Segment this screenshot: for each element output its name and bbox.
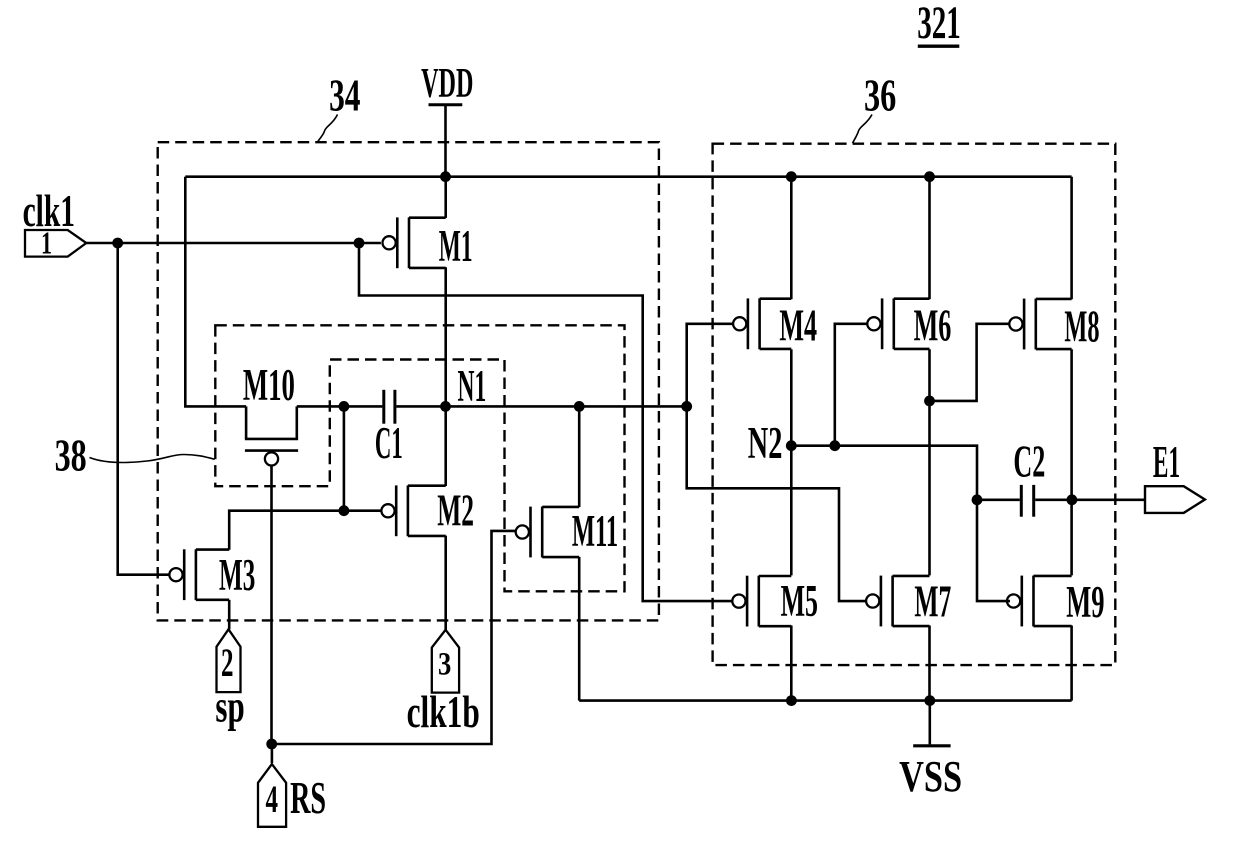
wire N1 to M7 gate bbox=[687, 406, 869, 601]
svg-text:321: 321 bbox=[917, 0, 961, 49]
transistor M7 (PMOS) bbox=[880, 576, 883, 627]
svg-text:E1: E1 bbox=[1153, 437, 1180, 487]
capacitor C2 plates bbox=[1020, 485, 1023, 517]
wire M3 source to node A bbox=[229, 511, 344, 550]
svg-text:34: 34 bbox=[329, 70, 360, 121]
wire M2 drain to pin clk1b bbox=[444, 536, 447, 630]
input pin 4 flag (RS) bbox=[258, 764, 286, 827]
svg-text:36: 36 bbox=[864, 70, 896, 121]
junction VSS-M5 bbox=[786, 695, 797, 706]
svg-text:N1: N1 bbox=[458, 361, 487, 411]
svg-text:M6: M6 bbox=[914, 301, 952, 351]
junction C2 right / M8 drain bbox=[1067, 494, 1078, 505]
wire N1 to M4 gate bbox=[687, 324, 735, 407]
svg-text:M7: M7 bbox=[914, 577, 951, 627]
wire M1 drain to N1 bbox=[444, 267, 447, 406]
wire M2 source to N1 bbox=[444, 406, 447, 486]
dashed box 36 (output buffer block) bbox=[713, 144, 1116, 665]
svg-text:M1: M1 bbox=[439, 221, 473, 271]
svg-text:M9: M9 bbox=[1066, 577, 1104, 627]
wire M8 drain to output node bbox=[1070, 349, 1073, 575]
svg-text:VDD: VDD bbox=[421, 61, 473, 107]
wire node N1 horizontal (left of C1) bbox=[297, 405, 383, 408]
wire clk1 input line bbox=[86, 242, 381, 245]
svg-text:M3: M3 bbox=[219, 550, 255, 600]
output pin E1 flag bbox=[1145, 486, 1205, 513]
wire rail left drop to M10 bbox=[185, 177, 246, 407]
junction M1/M2 on N1 bbox=[440, 401, 451, 412]
wire M11 source to N1 bbox=[578, 406, 581, 507]
dashed box 34 (input stage block) bbox=[158, 142, 659, 620]
wire VDD rail bbox=[185, 175, 1071, 178]
junction N2-M6 gate bbox=[829, 440, 840, 451]
wire M4 source to rail bbox=[790, 177, 793, 299]
svg-text:C2: C2 bbox=[1013, 437, 1045, 487]
junction N2-M4 bbox=[786, 440, 797, 451]
junction clk1-M3 branch bbox=[112, 238, 123, 249]
svg-text:2: 2 bbox=[221, 640, 234, 685]
wire node A to M2 gate bbox=[344, 509, 382, 512]
transistor M9 (PMOS) bbox=[1020, 576, 1023, 627]
transistor M10 (PMOS, horizontal, gate below) bbox=[245, 406, 248, 439]
wire M7 drain to VSS rail bbox=[928, 626, 931, 701]
transistor M6 (PMOS) bbox=[881, 298, 884, 349]
svg-text:sp: sp bbox=[215, 682, 244, 732]
svg-text:clk1: clk1 bbox=[23, 186, 75, 236]
junction M4-gate on N1 bbox=[681, 401, 692, 412]
svg-text:clk1b: clk1b bbox=[407, 687, 480, 737]
svg-text:M4: M4 bbox=[779, 301, 817, 351]
wire M9 drain to VSS rail bbox=[1070, 626, 1073, 701]
svg-text:C1: C1 bbox=[375, 418, 403, 468]
wire M6/M7 node to M8 gate bbox=[930, 324, 1011, 401]
wire VDD stem bbox=[444, 105, 447, 177]
wire C2 right lead to E1 pin bbox=[1035, 498, 1145, 501]
junction C2 left bbox=[972, 494, 983, 505]
svg-text:VSS: VSS bbox=[899, 752, 962, 801]
input pin 1 flag (clk1) bbox=[25, 230, 86, 257]
capacitor C1 plates bbox=[382, 390, 385, 424]
transistor M8 (PMOS) bbox=[1023, 299, 1026, 350]
leader line for label 38 bbox=[90, 455, 215, 463]
wire node N2 to C2 bbox=[791, 446, 977, 500]
wire RS line to M11 gate bbox=[272, 531, 516, 744]
wire M6 drain to M7 source bbox=[928, 349, 931, 575]
wire M10 gate stem down to RS line bbox=[270, 466, 273, 745]
transistor M3 (PMOS) bbox=[183, 549, 186, 600]
transistor M4 (PMOS) bbox=[747, 298, 750, 349]
svg-text:M5: M5 bbox=[781, 576, 818, 626]
wire clk1 branch to M5 gate bbox=[359, 243, 734, 601]
wire M4 drain to M5 source bbox=[790, 349, 793, 575]
wire C2 node to M9 gate bbox=[977, 500, 1010, 601]
junction VSS-M7 bbox=[924, 695, 935, 706]
wire rail corner to M8 source bbox=[1070, 177, 1073, 300]
svg-text:M8: M8 bbox=[1064, 302, 1099, 352]
wire VSS stem bbox=[928, 701, 931, 745]
leader line for label 34 bbox=[318, 115, 338, 142]
svg-text:M10: M10 bbox=[243, 360, 295, 410]
junction M11 on N1 bbox=[574, 401, 585, 412]
junction RS bbox=[266, 739, 277, 750]
wire node N1 horizontal (right of C1) bbox=[396, 405, 686, 408]
transistor M5 (PMOS) bbox=[746, 576, 749, 627]
wire RS pin stem bbox=[271, 744, 274, 763]
junction M6 drain / M8 gate bbox=[924, 396, 935, 407]
wire clk1 to M3 gate bbox=[118, 243, 170, 575]
wire M11 drain to VSS rail bbox=[578, 557, 581, 701]
dashed box 38 outline (bootstrap block, stepped polygon) bbox=[215, 325, 624, 591]
junction node A / M2 gate bbox=[339, 505, 350, 516]
wire N2 to M6 gate bbox=[835, 324, 869, 446]
VSS ground bar bbox=[913, 744, 950, 747]
svg-text:M2: M2 bbox=[437, 486, 474, 536]
transistor M11 (PMOS) bbox=[529, 507, 532, 558]
svg-text:3: 3 bbox=[438, 647, 451, 683]
input pin 2 flag (sp) bbox=[217, 629, 241, 692]
wire node A drop bbox=[343, 406, 346, 510]
junction rail-M6 bbox=[924, 171, 935, 182]
leader line for label 36 bbox=[853, 115, 873, 144]
junction VDD-rail bbox=[440, 171, 451, 182]
input pin 3 flag (clk1b) bbox=[432, 630, 459, 693]
wire M1 source to rail bbox=[444, 177, 447, 218]
wire M6 source to rail bbox=[928, 177, 931, 299]
svg-text:N2: N2 bbox=[748, 418, 783, 468]
svg-text:M11: M11 bbox=[572, 506, 618, 556]
VDD power bar bbox=[429, 103, 463, 106]
svg-text:RS: RS bbox=[290, 773, 326, 823]
wire M3 drain to pin sp bbox=[228, 600, 231, 629]
junction clk1-M5 branch bbox=[354, 238, 365, 249]
wire C2 left lead bbox=[977, 498, 1020, 501]
junction rail-M4 bbox=[786, 171, 797, 182]
junction node-A on N1 bbox=[339, 401, 350, 412]
transistor M2 (PMOS) bbox=[395, 485, 398, 536]
wire VSS rail bbox=[579, 699, 1071, 702]
wire M5 drain to VSS rail bbox=[790, 626, 793, 701]
svg-text:38: 38 bbox=[55, 430, 87, 481]
svg-text:4: 4 bbox=[266, 778, 279, 821]
transistor M1 (PMOS) bbox=[396, 217, 399, 268]
